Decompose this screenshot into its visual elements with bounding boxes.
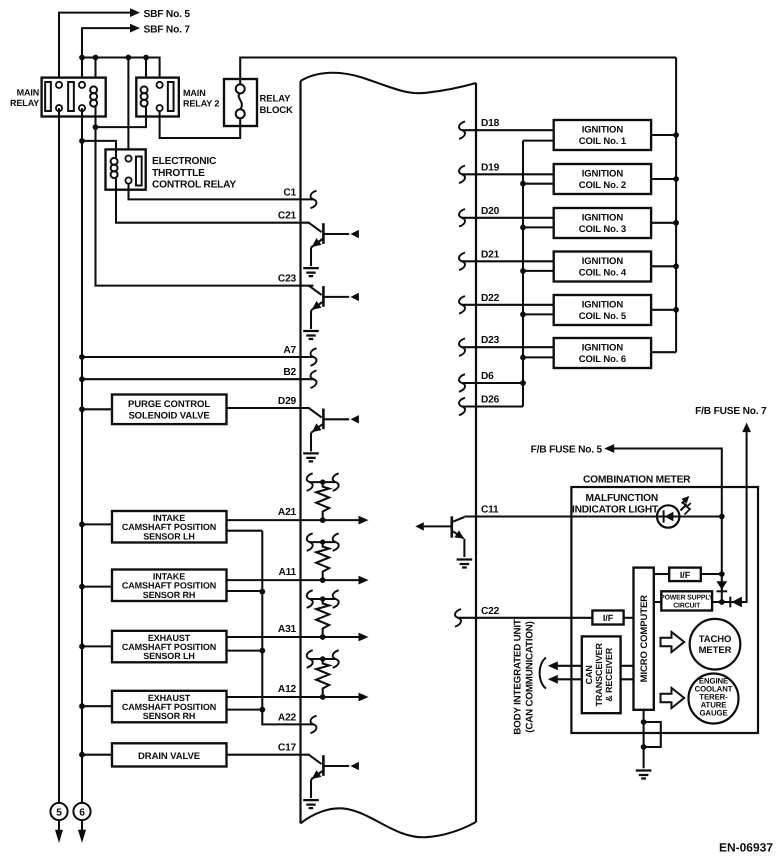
- wire ETC relay coil bottom to C21 row: [116, 178, 310, 223]
- label C11: [481, 505, 499, 516]
- svg-text:COIL No. 3: COIL No. 3: [579, 224, 626, 235]
- junction dot coil supply bus: [673, 176, 679, 182]
- pull-up resistor on A21: [307, 473, 339, 523]
- wires CAN transceiver to micro computer: [621, 666, 634, 680]
- junction dot D6: [520, 380, 526, 386]
- label D6: [481, 371, 494, 382]
- connector D18 break: [459, 121, 465, 139]
- wire main relay coil bottom down to C23 row: [96, 107, 314, 286]
- svg-text:A11: A11: [278, 567, 296, 578]
- relay MAIN RELAY 2 box: [136, 78, 179, 117]
- svg-text:F/B FUSE No. 7: F/B FUSE No. 7: [695, 406, 767, 417]
- connector C1 break: [311, 191, 317, 209]
- junction dot sensor feed: [79, 584, 85, 590]
- svg-text:A31: A31: [278, 624, 297, 635]
- arrowhead CAN line 1: [548, 661, 558, 670]
- connector D6 break: [459, 374, 465, 392]
- transistor at C11 (MIL driver): [415, 516, 466, 557]
- junction dot B2: [79, 376, 85, 382]
- ground below micro computer: [636, 771, 652, 779]
- label A7: [283, 345, 296, 356]
- junction dots on top bus: [79, 55, 149, 61]
- ENGINE COOLANT TEMPERATURE gauge: [689, 674, 739, 724]
- svg-text:SBF No. 5: SBF No. 5: [144, 9, 191, 20]
- connector B2 break: [311, 370, 317, 388]
- junction dot coil cross-link: [93, 124, 99, 130]
- label SBF No. 5: [144, 9, 191, 20]
- wire power bus to drain valve: [82, 754, 112, 756]
- arrowhead F/B FUSE No.7: [742, 423, 751, 433]
- label C17: [278, 743, 297, 754]
- wire ignition coil No.3 supply side: [651, 222, 676, 224]
- svg-text:F/B FUSE No. 5: F/B FUSE No. 5: [531, 445, 603, 456]
- svg-text:COIL No. 4: COIL No. 4: [579, 268, 627, 279]
- wire sensor signal to A11 row: [227, 579, 359, 581]
- svg-text:SOLENOID VALVE: SOLENOID VALVE: [128, 411, 209, 422]
- label MAIN RELAY 2: [183, 88, 219, 109]
- svg-text:D18: D18: [481, 118, 500, 129]
- svg-text:MALFUNCTION: MALFUNCTION: [586, 493, 659, 504]
- wire ETC relay contact to C1 row: [129, 184, 314, 200]
- svg-text:GAUGE: GAUGE: [699, 709, 727, 718]
- svg-text:ELECTRONIC: ELECTRONIC: [152, 156, 217, 167]
- wire power bus to exhaust sensor lh: [82, 645, 112, 647]
- wire main relay coil top to bus: [94, 58, 96, 87]
- svg-text:RELAY: RELAY: [260, 94, 292, 105]
- svg-text:D20: D20: [481, 206, 500, 217]
- junction dot purge feed: [79, 406, 85, 412]
- wire drain valve to C17: [227, 754, 310, 756]
- label C1: [283, 187, 296, 198]
- wire ignition coil No.4 ground-side stub: [523, 270, 554, 272]
- svg-text:A22: A22: [278, 712, 297, 723]
- svg-text:RELAY 2: RELAY 2: [183, 99, 219, 109]
- label A12: [278, 684, 297, 695]
- wire D22 to ignition coil No.5: [462, 304, 554, 306]
- svg-text:I/F: I/F: [680, 570, 691, 580]
- junction dot coil supply bus: [673, 263, 679, 269]
- label COMBINATION METER: [583, 475, 691, 486]
- wire micro computer to power supply circuit: [654, 601, 662, 603]
- svg-text:B2: B2: [283, 367, 296, 378]
- junction dot sensor feed: [79, 522, 85, 528]
- svg-text:IGNITION: IGNITION: [582, 169, 624, 180]
- svg-text:C17: C17: [278, 743, 297, 754]
- svg-text:A7: A7: [283, 345, 296, 356]
- transistor at C21: [303, 223, 359, 276]
- svg-text:TACHO: TACHO: [699, 634, 732, 645]
- IGNITION COIL No. 4 box: [554, 252, 651, 282]
- wire C22 to I/F (lower): [458, 617, 592, 619]
- wire CAN bus line 2: [557, 678, 582, 680]
- ETC relay coil: [111, 158, 118, 178]
- connector D21 break: [459, 252, 465, 270]
- terminal circle 5: [50, 803, 67, 820]
- connector A7 break: [311, 348, 317, 366]
- svg-text:C22: C22: [481, 606, 500, 617]
- main relay coil: [90, 86, 97, 106]
- svg-text:METER: METER: [699, 645, 732, 656]
- arrowhead A11 signal into ECM: [359, 576, 369, 585]
- svg-text:SENSOR RH: SENSOR RH: [143, 590, 196, 600]
- label SBF No. 7: [144, 24, 191, 35]
- svg-text:SBF No. 7: SBF No. 7: [144, 24, 191, 35]
- wire micro computer to I/F (upper): [654, 573, 669, 575]
- svg-text:D23: D23: [481, 335, 500, 346]
- svg-text:POWER SUPPLY: POWER SUPPLY: [660, 595, 714, 602]
- wire power bus to exhaust sensor rh: [82, 705, 112, 707]
- wire ignition coil No.3 ground-side stub: [523, 226, 554, 228]
- RELAY BLOCK box: [224, 79, 257, 126]
- wire ignition coil supply bus from top run: [675, 58, 677, 353]
- label A31: [278, 624, 297, 635]
- wire ignition coil No.5 ground-side stub: [523, 313, 554, 315]
- junction dot coil ground bus: [520, 312, 526, 318]
- junction dot coil supply bus: [673, 132, 679, 138]
- label D21: [481, 249, 500, 260]
- label D18: [481, 118, 500, 129]
- COMBINATION METER box: [571, 487, 758, 733]
- junction dot I/F supply: [719, 571, 725, 577]
- arrowhead SBF No.5: [130, 8, 140, 17]
- svg-text:INDICATOR LIGHT: INDICATOR LIGHT: [572, 505, 659, 516]
- pull-up resistor on A31: [307, 590, 339, 640]
- transistor at C23: [303, 286, 359, 339]
- label D29: [278, 396, 297, 407]
- IGNITION COIL No. 1 box: [554, 120, 651, 150]
- junction dot sensor feed: [79, 703, 85, 709]
- svg-text:D22: D22: [481, 293, 500, 304]
- label A21: [278, 507, 297, 518]
- wire ignition coil No.5 supply side: [651, 309, 676, 311]
- wire relay block top pin up and across top to ignition coil bus: [240, 58, 676, 85]
- arrowhead F/B FUSE No.5: [604, 444, 614, 453]
- PURGE CONTROL SOLENOID VALVE box: [112, 395, 227, 425]
- I/F box upper: [669, 568, 701, 582]
- connector D19 break: [459, 166, 465, 184]
- wire ignition coil ground bus: [522, 141, 524, 407]
- wire CAN bus line 1: [557, 665, 582, 667]
- LED light emission bolts: [681, 494, 692, 515]
- I/F box lower: [592, 611, 623, 625]
- arrowhead A21 signal into ECM: [359, 516, 369, 525]
- label D23: [481, 335, 500, 346]
- svg-text:COIL No. 6: COIL No. 6: [579, 354, 626, 365]
- relay MAIN RELAY box: [42, 78, 106, 117]
- svg-text:BODY INTEGRATED UNIT: BODY INTEGRATED UNIT: [513, 619, 524, 735]
- wire I/F upper to supply node: [701, 573, 722, 575]
- svg-text:DRAIN VALVE: DRAIN VALVE: [138, 751, 200, 762]
- wire D26 to coil ground bus: [462, 405, 523, 407]
- wire main relay 2 coil top to bus: [145, 58, 147, 87]
- wire power bus to ETC relay coil top: [82, 141, 116, 158]
- connector D22 break: [459, 296, 465, 314]
- block arrow to coolant gauge: [661, 688, 685, 708]
- wire sensor return to common bus: [227, 709, 263, 711]
- IGNITION COIL No. 3 box: [554, 208, 651, 238]
- label RELAY BLOCK: [260, 94, 294, 117]
- wire sensor common return bus to A22: [262, 531, 313, 725]
- svg-text:A21: A21: [278, 507, 297, 518]
- svg-text:IGNITION: IGNITION: [582, 213, 624, 224]
- svg-text:MICRO COMPUTER: MICRO COMPUTER: [639, 595, 650, 683]
- svg-text:CAN: CAN: [584, 665, 594, 684]
- main relay pins: [56, 82, 85, 111]
- wire SBF No.7 feed from main relay pin: [82, 28, 130, 85]
- wire sensor signal to A21 row: [227, 519, 359, 521]
- svg-text:THROTTLE: THROTTLE: [152, 168, 205, 179]
- wire micro computer ground: [643, 710, 645, 769]
- svg-text:C23: C23: [278, 274, 297, 285]
- wire main relay 2 contact to relay block bottom: [160, 111, 241, 138]
- wire coil bottoms cross-link to main relay 2 coil: [96, 107, 147, 128]
- wire sensor signal to A31 row: [227, 636, 359, 638]
- svg-text:(CAN COMMUNICATION): (CAN COMMUNICATION): [525, 621, 536, 732]
- label F/B FUSE No. 5: [531, 445, 603, 456]
- label D20: [481, 206, 500, 217]
- junction dot coil supply bus: [673, 220, 679, 226]
- diode on meter supply bus: [716, 581, 727, 591]
- svg-text:D21: D21: [481, 249, 500, 260]
- svg-text:IGNITION: IGNITION: [582, 343, 624, 354]
- label A22: [278, 712, 297, 723]
- transistor at D29: [303, 408, 359, 461]
- ECM block torn top edge: [301, 73, 477, 93]
- label MALFUNCTION INDICATOR LIGHT: [572, 493, 659, 516]
- svg-text:& RECEIVER: & RECEIVER: [604, 647, 614, 702]
- label BODY INTEGRATED UNIT (CAN COMMUNICATION): [513, 619, 536, 735]
- connector D26 break: [459, 398, 465, 416]
- junction dot coil ground bus: [520, 355, 526, 361]
- svg-text:SENSOR LH: SENSOR LH: [143, 531, 195, 541]
- junction dots on sensor return bus: [259, 589, 265, 713]
- junction dot drain valve feed: [79, 752, 85, 758]
- label ELECTRONIC THROTTLE CONTROL RELAY: [152, 156, 236, 191]
- wire D18 to ignition coil No.1: [462, 129, 554, 131]
- wire power bus to intake sensor rh: [82, 586, 112, 588]
- TACHO METER gauge: [690, 619, 741, 670]
- wire I/F lower to micro computer: [624, 617, 634, 619]
- svg-text:PURGE CONTROL: PURGE CONTROL: [128, 399, 210, 410]
- CAN communication arc: [540, 658, 546, 689]
- svg-text:CIRCUIT: CIRCUIT: [673, 603, 701, 610]
- pull-up resistor on A12: [307, 650, 339, 700]
- wire B2 from power bus: [82, 378, 314, 380]
- svg-text:6: 6: [79, 808, 85, 819]
- label D19: [481, 162, 500, 173]
- arrowhead CAN line 2: [548, 675, 558, 684]
- junction dot MIL / supply bus: [719, 514, 725, 520]
- arrow below terminal 5: [55, 820, 63, 843]
- svg-text:SENSOR RH: SENSOR RH: [143, 711, 196, 721]
- wire purge valve to D29: [227, 407, 310, 409]
- main relay 2 pins: [157, 82, 163, 111]
- wire D6 to coil ground bus: [462, 382, 523, 384]
- MICRO COMPUTER box: [634, 568, 654, 710]
- label C23: [278, 274, 297, 285]
- wire power supply circuit to node: [712, 601, 722, 603]
- svg-text:C1: C1: [283, 187, 296, 198]
- label EN-06937: [719, 841, 773, 855]
- wire ignition coil No.4 supply side: [651, 265, 676, 267]
- wire top supply bus to main relay 2 contact: [82, 58, 160, 85]
- diode from F/B fuse No.7 line: [730, 597, 742, 608]
- connector D20 break: [459, 209, 465, 227]
- wire ignition coil No.2 ground-side stub: [523, 183, 554, 185]
- label D22: [481, 293, 500, 304]
- connector A22 break: [311, 716, 317, 734]
- ground below C11 transistor: [457, 560, 473, 568]
- wire bus down to electronic throttle control relay contact: [127, 58, 129, 156]
- svg-text:C11: C11: [481, 505, 499, 516]
- svg-text:D29: D29: [278, 396, 297, 407]
- IGNITION COIL No. 6 box: [554, 338, 651, 368]
- DRAIN VALVE box: [112, 743, 227, 766]
- svg-text:5: 5: [56, 808, 62, 819]
- junction dot power bus / ETC coil: [79, 138, 85, 144]
- svg-text:A12: A12: [278, 684, 297, 695]
- EXHAUST CAMSHAFT POSITION SENSOR RH box: [112, 691, 227, 723]
- svg-text:IGNITION: IGNITION: [582, 300, 624, 311]
- arrowhead A12 signal into ECM: [359, 693, 369, 702]
- label B2: [283, 367, 296, 378]
- svg-text:I/F: I/F: [603, 613, 614, 623]
- svg-text:C21: C21: [278, 211, 297, 222]
- LED malfunction indicator light: [657, 505, 679, 527]
- connector D23 break: [459, 338, 465, 356]
- POWER SUPPLY CIRCUIT box: [660, 591, 714, 610]
- main relay 2 coil: [141, 86, 148, 106]
- label D26: [481, 395, 500, 406]
- CAN TRANSCEIVER & RECEIVER box: [582, 636, 621, 713]
- IGNITION COIL No. 2 box: [554, 164, 651, 194]
- relay block fusible link circles and element: [236, 84, 245, 118]
- wire power bus to intake sensor lh: [82, 523, 112, 525]
- svg-text:D26: D26: [481, 395, 500, 406]
- transistor at C17: [303, 755, 359, 808]
- svg-text:D6: D6: [481, 371, 494, 382]
- ETC relay pins: [125, 156, 131, 184]
- wire D20 to ignition coil No.3: [462, 217, 554, 219]
- svg-text:COMBINATION METER: COMBINATION METER: [583, 475, 691, 486]
- EXHAUST CAMSHAFT POSITION SENSOR LH box: [112, 631, 227, 663]
- svg-text:BLOCK: BLOCK: [260, 105, 294, 116]
- wire ignition coil No.1 supply side: [651, 134, 676, 136]
- wire ignition coil No.6 supply side: [651, 351, 676, 353]
- INTAKE CAMSHAFT POSITION SENSOR RH box: [112, 570, 227, 602]
- wire F/B FUSE No.5 feed: [613, 449, 722, 603]
- junction dot coil supply bus: [673, 307, 679, 313]
- ECM block right edge: [475, 83, 477, 822]
- arrowhead SBF No.7: [130, 24, 140, 33]
- svg-text:RELAY: RELAY: [10, 98, 39, 108]
- arrow below terminal 6: [78, 820, 86, 843]
- wire sensor return to common bus: [227, 530, 263, 532]
- svg-text:MAIN: MAIN: [183, 88, 206, 98]
- svg-text:IGNITION: IGNITION: [582, 125, 624, 136]
- relay ELECTRONIC THROTTLE CONTROL RELAY box: [106, 149, 146, 189]
- wire SBF No.5 feed from main relay pin: [59, 13, 130, 85]
- wire A7 from power bus: [82, 356, 314, 358]
- svg-text:COIL No. 1: COIL No. 1: [579, 136, 627, 147]
- ECM block left edge: [299, 81, 301, 823]
- main relay 2 contact slot: [168, 82, 174, 111]
- connector C22 break: [455, 609, 461, 627]
- svg-text:TRANSCEIVER: TRANSCEIVER: [594, 643, 604, 707]
- arrowhead A31 signal into ECM: [359, 633, 369, 642]
- terminal circle 6: [73, 803, 90, 820]
- wire sensor signal to A12 row: [227, 696, 359, 698]
- ground loop through meter case: [644, 722, 661, 747]
- wire C11 to malfunction indicator light: [464, 515, 721, 517]
- svg-text:SENSOR LH: SENSOR LH: [143, 651, 195, 661]
- junction dot coil ground bus: [520, 225, 526, 231]
- wire power bus to purge control solenoid valve: [82, 408, 112, 410]
- wire main relay contact pin down to terminal 6 (power bus): [81, 108, 83, 803]
- junction dot coil ground bus: [520, 268, 526, 274]
- wire ignition coil No.2 supply side: [651, 178, 676, 180]
- svg-text:IGNITION: IGNITION: [582, 256, 624, 267]
- svg-text:EN-06937: EN-06937: [719, 841, 773, 855]
- wire F/B FUSE No.7 feed: [722, 432, 747, 602]
- main relay contact slot 1: [45, 82, 51, 111]
- junction dot coil ground bus: [520, 181, 526, 187]
- IGNITION COIL No. 5 box: [554, 295, 651, 325]
- ETC relay contact slot: [136, 157, 142, 186]
- wire D21 to ignition coil No.4: [462, 260, 554, 262]
- wire ignition coil No.1 ground-side stub: [523, 140, 554, 142]
- svg-text:D19: D19: [481, 162, 500, 173]
- label C21: [278, 211, 297, 222]
- wire main relay contact pin down to terminal 5 (left bus): [58, 108, 60, 803]
- ECM block torn bottom edge: [301, 808, 477, 837]
- label A11: [278, 567, 296, 578]
- svg-text:COIL No. 2: COIL No. 2: [579, 180, 626, 191]
- INTAKE CAMSHAFT POSITION SENSOR LH box: [112, 511, 227, 543]
- label MAIN RELAY: [10, 87, 39, 108]
- label C22: [481, 606, 500, 617]
- svg-text:COIL No. 5: COIL No. 5: [579, 311, 627, 322]
- wire ignition coil No.6 ground-side stub: [523, 356, 554, 358]
- junction dots ground loop: [641, 719, 647, 750]
- junction dot A7: [79, 354, 85, 360]
- main relay contact slot 2: [68, 82, 74, 111]
- wire sensor return to common bus: [227, 590, 263, 592]
- pull-up resistor on A11: [307, 533, 339, 583]
- wire D23 to ignition coil No.6: [462, 346, 554, 348]
- svg-text:MAIN: MAIN: [17, 87, 40, 97]
- label F/B FUSE No. 7: [695, 406, 767, 417]
- junction dot power supply circuit node: [719, 599, 725, 605]
- block arrow to tachometer: [661, 632, 685, 652]
- wire sensor return to common bus: [227, 650, 263, 652]
- junction dot sensor feed: [79, 644, 85, 650]
- svg-text:CONTROL RELAY: CONTROL RELAY: [152, 180, 236, 191]
- wire D19 to ignition coil No.2: [462, 173, 554, 175]
